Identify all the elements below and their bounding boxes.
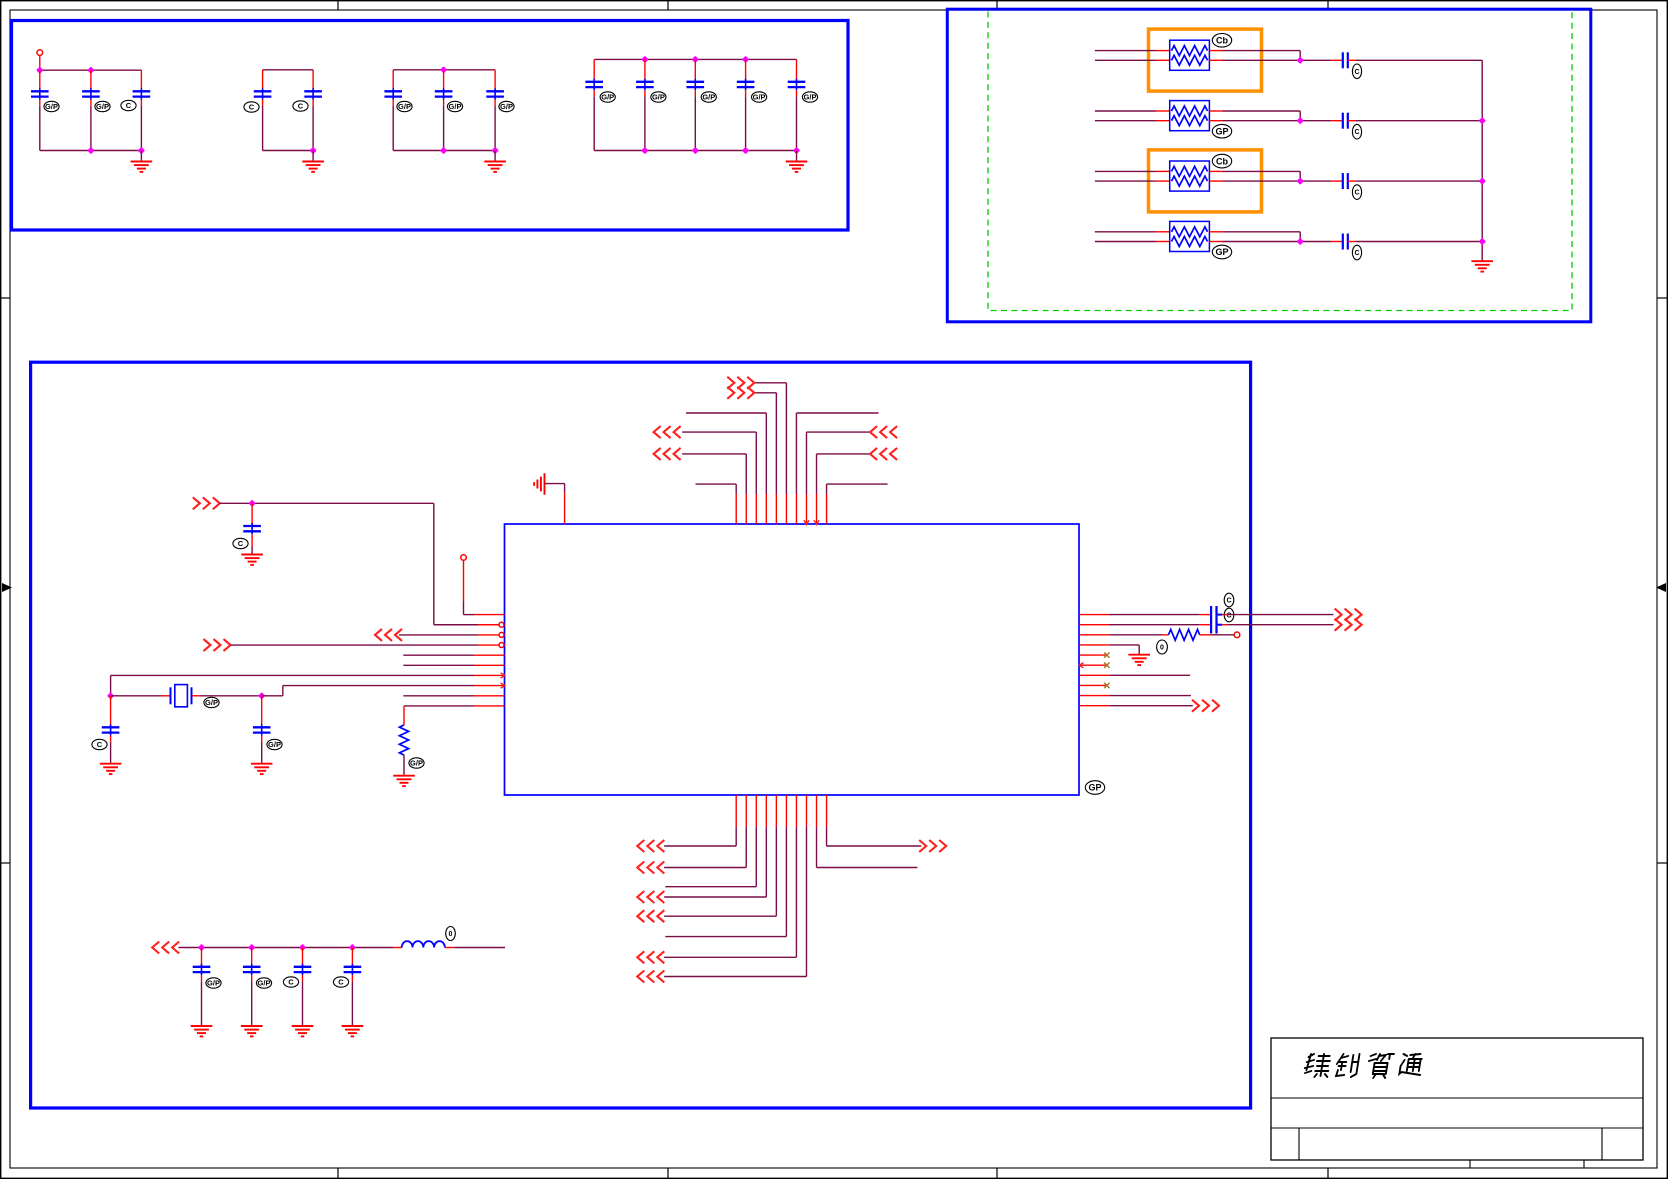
svg-text:C: C xyxy=(1354,250,1359,257)
label RN3 xyxy=(1212,154,1231,168)
wire r7 xyxy=(1109,674,1190,676)
capacitor C21 xyxy=(262,70,264,92)
junction xyxy=(36,67,43,74)
orange highlight box RN3 xyxy=(1149,150,1262,212)
wire b1 xyxy=(735,827,737,846)
port arrow xyxy=(637,910,664,922)
svg-text:G/P: G/P xyxy=(398,102,411,111)
junction xyxy=(1297,57,1304,64)
wire bottom rail G1 xyxy=(40,150,142,152)
ground bus xyxy=(1471,261,1493,271)
ground G3 xyxy=(484,162,506,172)
inductor L1 xyxy=(394,947,402,949)
ground r4 xyxy=(1128,655,1150,665)
pin U1 r10 xyxy=(1079,705,1109,707)
capacitor C11 xyxy=(39,70,41,91)
junction xyxy=(1297,238,1304,245)
label L1 xyxy=(446,927,456,941)
junction xyxy=(309,147,316,154)
wire xyxy=(494,151,496,162)
wire bottom rail G2 xyxy=(263,150,314,152)
junction xyxy=(440,147,447,154)
label Ct1 xyxy=(1352,64,1361,79)
pin U1 bottom xyxy=(805,795,807,827)
pin U1 l10 xyxy=(474,705,505,707)
svg-text:G/P: G/P xyxy=(258,979,271,988)
label C31 xyxy=(397,101,412,111)
port arrow xyxy=(637,840,664,852)
pin U1 r2 xyxy=(1079,624,1109,626)
main blue box xyxy=(31,362,1251,1108)
label Ct2 xyxy=(1352,124,1361,139)
label C5 xyxy=(233,538,248,548)
svg-text:G/P: G/P xyxy=(804,93,817,102)
label C42 xyxy=(651,92,666,102)
wire b10 xyxy=(826,827,828,846)
wire l4 xyxy=(231,644,479,646)
port arrow xyxy=(1335,609,1362,621)
resistor pack RN4 xyxy=(1156,231,1170,233)
label C43 xyxy=(701,92,716,102)
svg-text:C: C xyxy=(288,978,294,987)
pin U1 bottom xyxy=(795,795,797,827)
ground G1 xyxy=(131,162,153,172)
pin U1 r4 xyxy=(1079,644,1109,646)
wire l7 xyxy=(111,674,474,676)
svg-text:G/P: G/P xyxy=(753,93,766,102)
svg-text:G/P: G/P xyxy=(449,102,462,111)
wire l2 xyxy=(433,503,435,624)
wire r9 xyxy=(1109,695,1191,697)
wire l1 xyxy=(464,614,475,616)
wire top rail G3 xyxy=(393,69,495,71)
label C45 xyxy=(802,92,817,102)
capacitor Ct2 xyxy=(1331,120,1343,122)
port arrow xyxy=(870,448,897,460)
pin U1 bottom xyxy=(816,795,818,827)
wire top rail G1 xyxy=(40,69,142,71)
ground top xyxy=(534,473,544,495)
svg-text:G/P: G/P xyxy=(702,93,715,102)
wire Ct2 to bus xyxy=(1356,120,1482,122)
wire RN3 in xyxy=(1095,170,1156,172)
wire t9 xyxy=(816,454,818,494)
pin U1 r6 xyxy=(1079,664,1107,666)
junction xyxy=(440,66,447,73)
port arrow xyxy=(727,377,754,389)
junction xyxy=(1479,117,1486,124)
capacitor C33 xyxy=(494,70,496,92)
label C94 xyxy=(333,977,348,987)
svg-text:G/P: G/P xyxy=(652,93,665,102)
label R1 xyxy=(409,758,424,768)
pin U1 bottom xyxy=(755,795,757,827)
svg-text:GP: GP xyxy=(1088,783,1101,793)
label C32 xyxy=(447,101,462,111)
capacitor C93 xyxy=(302,948,304,967)
capacitor C6 xyxy=(110,696,112,728)
pin U1 l6 xyxy=(474,664,505,666)
label C93 xyxy=(283,977,298,987)
wire t3 xyxy=(755,432,757,494)
wire r4 xyxy=(1109,644,1139,646)
wire RN4 in xyxy=(1095,231,1156,233)
capacitor C22 xyxy=(312,70,314,92)
svg-text:Cb: Cb xyxy=(1216,156,1228,166)
pin U1 l9 xyxy=(474,695,505,697)
svg-text:GP: GP xyxy=(1215,126,1228,136)
label C8 xyxy=(1224,593,1234,607)
junction xyxy=(641,147,648,154)
orange highlight box RN1 xyxy=(1149,29,1262,91)
title text WISTRON xyxy=(1303,1054,1423,1078)
wire RN2 in xyxy=(1095,110,1156,112)
svg-text:C: C xyxy=(298,102,304,111)
wire filter rail xyxy=(178,947,393,949)
svg-text:C: C xyxy=(238,539,244,548)
ground C7 xyxy=(251,764,273,774)
port arrow xyxy=(193,497,220,509)
pin U1 r9 xyxy=(1079,695,1109,697)
wire RN3 out xyxy=(1223,170,1301,172)
pin U1 top xyxy=(765,494,767,524)
wire top rail G2 xyxy=(263,69,314,71)
svg-text:G/P: G/P xyxy=(207,979,220,988)
svg-text:C: C xyxy=(1226,613,1231,620)
pin U1 l1 xyxy=(474,614,505,616)
no-connect X xyxy=(1104,683,1109,688)
junction xyxy=(248,500,255,507)
port arrow xyxy=(1335,619,1362,631)
wire t5 xyxy=(775,393,777,494)
capacitor C5 xyxy=(251,503,253,526)
capacitor C94 xyxy=(351,948,353,967)
label C41 xyxy=(600,92,615,102)
top-left blue box xyxy=(12,21,849,231)
pin U1 top xyxy=(795,494,797,524)
pin U1 l8 xyxy=(474,685,505,687)
ground C91 xyxy=(191,1026,213,1036)
wire b9 xyxy=(816,827,818,868)
wire b8 xyxy=(805,827,807,977)
svg-text:C: C xyxy=(249,103,255,112)
label RN1 xyxy=(1212,34,1231,48)
label C91 xyxy=(206,978,221,988)
wire r10 xyxy=(1109,705,1193,707)
wire b6 xyxy=(785,827,787,937)
pin U1 top xyxy=(745,494,747,524)
resistor pack RN2 xyxy=(1156,110,1170,112)
port arrow xyxy=(1192,700,1219,712)
capacitor Ct1 xyxy=(1331,59,1343,61)
pin U1 r1 xyxy=(1079,614,1109,616)
wire r2 xyxy=(1109,624,1200,626)
junction xyxy=(641,56,648,63)
pin U1 bottom xyxy=(735,795,737,827)
capacitor C45 xyxy=(796,59,798,81)
capacitor C92 xyxy=(251,948,253,967)
label RN2 xyxy=(1212,124,1231,138)
wire b3 xyxy=(755,827,757,887)
pin U1 top xyxy=(816,494,818,524)
pin U1 top gnd xyxy=(564,493,566,524)
label C21 xyxy=(244,102,259,112)
wire t2 xyxy=(745,454,747,494)
label C6 xyxy=(92,739,107,749)
no-connect X xyxy=(1104,663,1109,668)
port arrow xyxy=(637,891,664,903)
port arrow xyxy=(637,971,664,983)
wire t7 xyxy=(795,413,797,494)
svg-text:GP: GP xyxy=(1215,247,1228,257)
capacitor C8 xyxy=(1210,606,1212,634)
svg-text:C: C xyxy=(97,740,103,749)
svg-text:C: C xyxy=(1354,129,1359,136)
svg-text:C: C xyxy=(126,101,132,110)
svg-text:C: C xyxy=(1354,190,1359,197)
junction xyxy=(87,147,94,154)
svg-text:G/P: G/P xyxy=(601,93,614,102)
svg-text:G/P: G/P xyxy=(205,698,218,707)
no-connect X xyxy=(1104,652,1109,657)
wire xyxy=(140,151,142,162)
svg-text:0: 0 xyxy=(1160,645,1164,652)
wire t10 xyxy=(826,484,828,494)
wire t6 xyxy=(785,383,787,494)
wire bottom rail G3 xyxy=(393,150,495,152)
capacitor C41 xyxy=(593,59,595,81)
wire bottom rail G4 xyxy=(594,150,796,152)
wire l5 xyxy=(403,654,474,656)
wire t4 xyxy=(765,413,767,494)
svg-text:Cb: Cb xyxy=(1216,36,1228,46)
svg-text:C: C xyxy=(338,978,344,987)
pin U1 bottom xyxy=(765,795,767,827)
wire RN4 out xyxy=(1223,231,1301,233)
label R2 xyxy=(1157,640,1168,654)
capacitor C32 xyxy=(443,70,445,92)
svg-text:C: C xyxy=(1226,598,1231,605)
label C7 xyxy=(267,739,282,749)
top-right blue box xyxy=(947,9,1591,322)
wire l9 xyxy=(403,695,474,697)
ground C93 xyxy=(292,1026,314,1036)
capacitor C91 xyxy=(201,948,203,967)
label C44 xyxy=(752,92,767,102)
ground G4 xyxy=(786,162,808,172)
pin U1 l7 xyxy=(474,674,505,676)
wire l6 xyxy=(403,664,474,666)
label C33 xyxy=(499,101,514,111)
wire RN1 out xyxy=(1223,50,1301,52)
label Y1 xyxy=(204,697,219,707)
wire gnd bus xyxy=(1481,60,1483,261)
capacitor C7 xyxy=(261,696,263,728)
wire l10 xyxy=(404,705,474,707)
resistor R1 xyxy=(403,706,405,725)
pin arrow in xyxy=(804,520,809,524)
ground C5 xyxy=(241,555,263,565)
pin U1 bottom xyxy=(775,795,777,827)
wire after L1 xyxy=(454,947,505,949)
wire l8 xyxy=(283,685,474,687)
pin U1 top xyxy=(826,494,828,524)
wire xyxy=(312,151,314,162)
IC U1 body xyxy=(505,524,1080,795)
port arrow xyxy=(727,387,754,399)
pin U1 bottom xyxy=(785,795,787,827)
wire xyxy=(796,151,798,162)
pin U1 top xyxy=(785,494,787,524)
label RN4 xyxy=(1212,245,1231,259)
capacitor Ct4 xyxy=(1331,241,1343,243)
title block xyxy=(1271,1038,1643,1168)
pin U1 r7 xyxy=(1079,674,1109,676)
wire xyxy=(545,483,565,485)
pin U1 l5 xyxy=(474,654,505,656)
wire b2 xyxy=(745,827,747,868)
port arrow xyxy=(870,426,897,438)
port arrow xyxy=(654,426,681,438)
pin U1 bottom xyxy=(826,795,828,827)
port arrow xyxy=(919,840,946,852)
power pin P1 xyxy=(37,50,43,56)
junction xyxy=(198,944,205,951)
wire RN1 in xyxy=(1095,50,1156,52)
svg-text:G/P: G/P xyxy=(500,102,513,111)
capacitor C43 xyxy=(694,59,696,81)
pin U1 top xyxy=(775,494,777,524)
port arrow xyxy=(637,951,664,963)
green dashed keepout xyxy=(988,12,1572,311)
svg-text:G/P: G/P xyxy=(45,102,58,111)
svg-text:G/P: G/P xyxy=(410,759,423,768)
wire xtal left xyxy=(110,675,112,695)
junction xyxy=(258,692,265,699)
capacitor C13 xyxy=(140,70,142,91)
port arrow xyxy=(375,629,402,641)
pin U1 top xyxy=(805,494,807,524)
label Ct4 xyxy=(1352,245,1361,260)
pin U1 l2 xyxy=(478,624,499,626)
wire b7 xyxy=(795,827,797,958)
resistor R2 xyxy=(1109,634,1162,636)
label C13 xyxy=(121,100,136,110)
label C11 xyxy=(44,101,59,111)
pin U1 r5 xyxy=(1079,654,1107,656)
resistor pack RN1 xyxy=(1156,50,1170,52)
label C12 xyxy=(95,101,110,111)
capacitor Ct3 xyxy=(1331,180,1343,182)
pin U1 top xyxy=(755,494,757,524)
capacitor C44 xyxy=(745,59,747,81)
wire Ct3 to bus xyxy=(1356,180,1482,182)
ground C94 xyxy=(342,1026,364,1036)
pin NC r3 xyxy=(1234,632,1240,638)
wire Ct4 to bus xyxy=(1356,241,1482,243)
pin U1 r8 xyxy=(1079,684,1107,686)
wire b5 xyxy=(775,827,777,916)
svg-text:G/P: G/P xyxy=(268,740,281,749)
resistor pack RN3 xyxy=(1156,170,1170,172)
pin U1 l4 xyxy=(478,644,499,646)
crystal Y1 xyxy=(111,695,162,697)
ground C92 xyxy=(241,1026,263,1036)
pin U1 l3 xyxy=(478,634,499,636)
wire RN2 out xyxy=(1223,110,1301,112)
junction xyxy=(1297,177,1304,184)
capacitor C31 xyxy=(392,70,394,92)
port arrow xyxy=(204,639,231,651)
ground R1 xyxy=(393,776,415,786)
wire Ct1 to bus xyxy=(1356,59,1482,61)
wire b4 xyxy=(765,827,767,897)
label C22 xyxy=(293,101,308,111)
svg-text:0: 0 xyxy=(449,931,453,938)
capacitor C12 xyxy=(90,70,92,91)
pin U1 r3 xyxy=(1079,634,1109,636)
pin NC xyxy=(461,555,467,561)
wire r1 xyxy=(1109,614,1200,616)
wire t8 xyxy=(805,432,807,494)
ground G2 xyxy=(302,162,324,172)
wire xyxy=(220,502,434,504)
port arrow xyxy=(654,448,681,460)
pin U1 bottom xyxy=(745,795,747,827)
pin U1 top xyxy=(735,494,737,524)
ground C6 xyxy=(100,764,122,774)
wire l3 xyxy=(399,634,478,636)
label Ct3 xyxy=(1352,185,1361,200)
label C92 xyxy=(256,978,271,988)
wire r1 out xyxy=(1222,614,1228,616)
wire xyxy=(262,695,283,697)
junction xyxy=(1297,117,1304,124)
port arrow xyxy=(152,942,179,954)
svg-text:C: C xyxy=(1354,69,1359,76)
svg-text:G/P: G/P xyxy=(96,102,109,111)
wire top rail G4 xyxy=(594,58,796,60)
wire r2 out xyxy=(1222,624,1228,626)
port arrow xyxy=(637,862,664,874)
wire t1 xyxy=(735,484,737,494)
junction xyxy=(107,692,114,699)
label U1 GP xyxy=(1085,781,1104,795)
capacitor C42 xyxy=(644,59,646,81)
